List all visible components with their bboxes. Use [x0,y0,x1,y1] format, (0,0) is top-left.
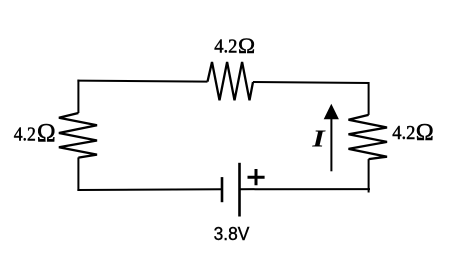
svg-text:Ω: Ω [37,118,56,147]
wire bottom-right horizontal [240,188,371,190]
battery V1 negative plate (short) [221,177,224,202]
current arrow I head [324,104,339,119]
resistor R3 (right, 4.2 ohm) [349,115,388,159]
svg-text:I: I [311,126,326,153]
svg-text:4.2: 4.2 [392,122,415,144]
svg-text:Ω: Ω [416,119,434,146]
plus sign of battery [248,169,265,185]
wire left vertical lower [77,157,79,191]
wire right vertical upper [368,82,370,115]
current arrow I shaft [330,118,332,171]
wire top-left horizontal [77,81,207,82]
resistor R1 (top, 4.2 ohm) [208,62,254,100]
wire right vertical lower [368,159,370,192]
wire left vertical upper [77,80,79,113]
svg-text:4.2: 4.2 [214,36,237,57]
wire bottom-left horizontal [77,188,222,191]
svg-text:4.2: 4.2 [14,124,36,146]
svg-text:3.8V: 3.8V [214,223,250,244]
resistor R2 (left, 4.2 ohm) [59,113,97,158]
wire top-right horizontal [253,82,370,83]
battery V1 positive plate (long) [238,163,241,217]
svg-text:Ω: Ω [238,33,255,58]
